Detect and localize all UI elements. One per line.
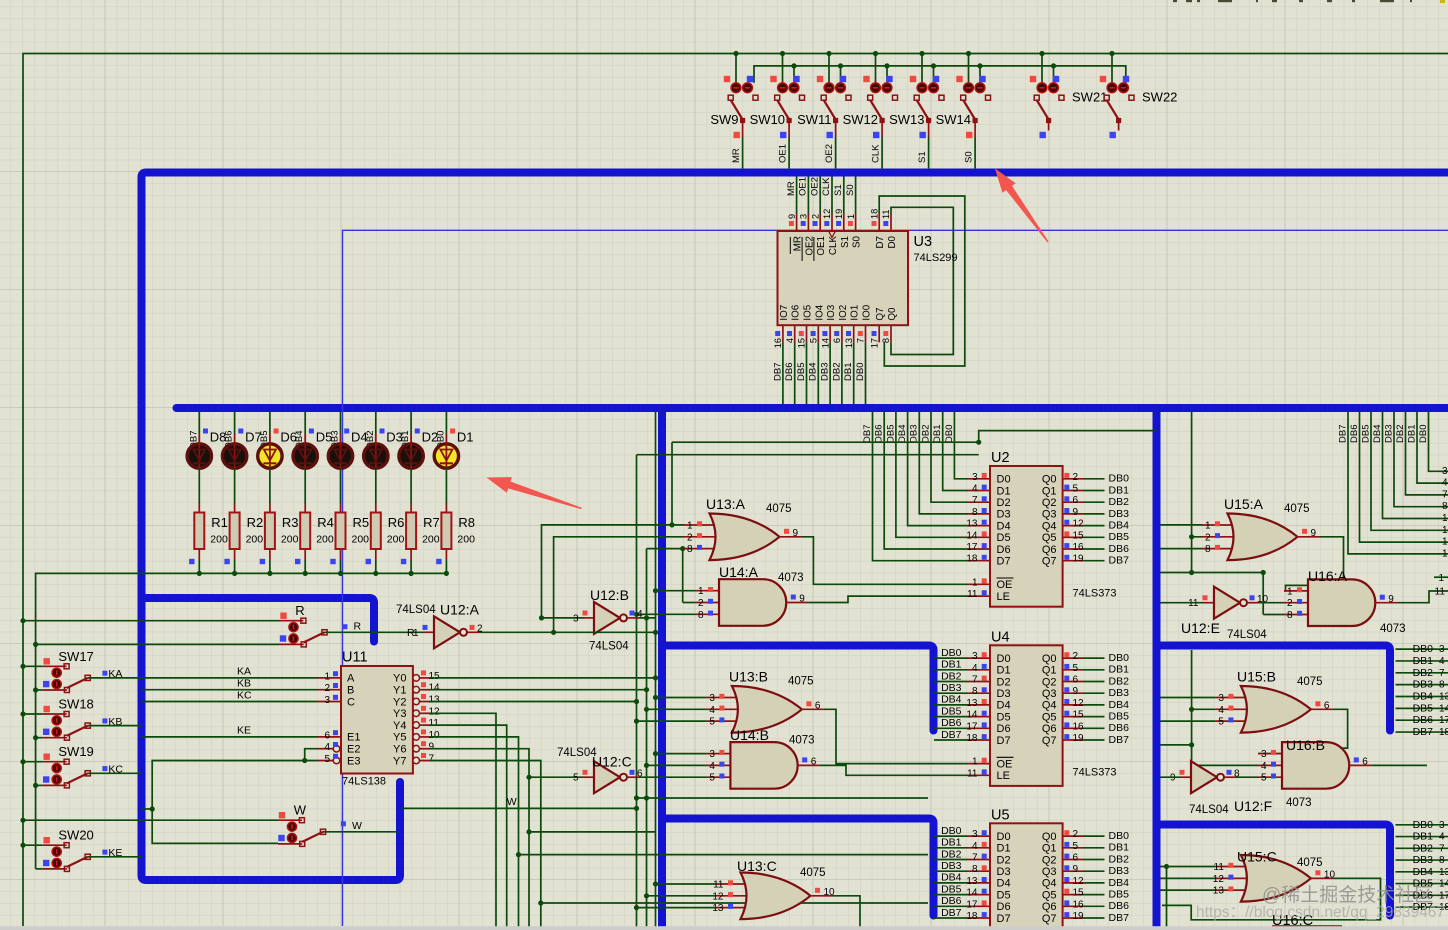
bus vertical mid <box>658 408 666 930</box>
wire rail to SW18 bottom <box>36 737 43 739</box>
U11 pin 6 indicator <box>333 730 338 735</box>
junction R4 common <box>303 571 308 576</box>
svg-text:Q5: Q5 <box>1042 532 1057 544</box>
wire net DB2 bus to U2 <box>931 412 968 502</box>
svg-text:16: 16 <box>1073 721 1085 732</box>
svg-text:SW21: SW21 <box>1072 90 1107 105</box>
U11 pin 14 stub <box>420 689 431 691</box>
U15:A input 1 stub <box>1202 524 1237 526</box>
D2 indicator <box>415 429 420 434</box>
wire R1 to common <box>198 560 200 573</box>
U5 pin 19 indicator <box>1064 912 1069 917</box>
U4 pin 15 indicator <box>1064 711 1069 716</box>
svg-text:U13:C: U13:C <box>737 858 777 874</box>
wire Y5 <box>430 737 519 930</box>
U11 Y3 bubble <box>413 710 420 717</box>
wire Y3 <box>430 713 496 930</box>
wire to U13:C pin12 <box>647 895 716 897</box>
svg-text:8: 8 <box>698 610 704 621</box>
U3 top pin 9 stub <box>796 214 798 232</box>
wire DB2 right mid <box>1396 672 1448 674</box>
wire U12:E out to U16:A pin2 <box>1259 602 1284 604</box>
svg-text:6: 6 <box>1073 853 1079 864</box>
svg-text:https：//blog.csdn.net/qq_29839: https：//blog.csdn.net/qq_29839467 <box>1196 904 1445 921</box>
LED D6 <box>258 434 282 469</box>
svg-text:R: R <box>354 621 362 633</box>
U4 pin 12 indicator <box>1064 699 1069 704</box>
U13:B pin 3 indicator <box>719 694 724 699</box>
svg-text:13: 13 <box>966 698 978 709</box>
svg-text:4075: 4075 <box>766 503 792 515</box>
wire U16:A out <box>1397 591 1448 603</box>
svg-text:B: B <box>347 685 354 697</box>
svg-text:DB7: DB7 <box>941 729 962 741</box>
R3 top lead <box>269 504 271 513</box>
bus mid section C top <box>662 819 934 916</box>
svg-text:4: 4 <box>972 841 978 852</box>
svg-text:DB6: DB6 <box>1109 543 1130 555</box>
junction U13:B pin5 <box>634 719 639 724</box>
svg-text:S0: S0 <box>964 151 975 163</box>
svg-text:8: 8 <box>1439 680 1445 691</box>
U4 pin 1 indicator <box>982 758 987 763</box>
svg-text:18: 18 <box>966 911 978 922</box>
svg-text:U16:B: U16:B <box>1286 737 1325 753</box>
U5 D5 stub <box>968 894 990 896</box>
U4 Q3 wire <box>1084 692 1105 694</box>
wire vertical 1166 <box>1166 867 1168 929</box>
wire to U15:A pin1 <box>1161 524 1203 526</box>
svg-text:DB1: DB1 <box>932 425 943 443</box>
U15:B input 5 stub <box>1215 720 1250 722</box>
svg-text:OE: OE <box>997 579 1013 591</box>
wire U12:C out to U14:B pin5 <box>639 776 706 778</box>
chip U4 74LS373 body <box>990 645 1063 786</box>
U14:A input 2 stub <box>695 602 719 604</box>
wire net DB7 bus to U2 <box>873 412 969 561</box>
wire to U15:A pin8 <box>1161 548 1203 550</box>
svg-text:U12:E: U12:E <box>1181 620 1220 636</box>
svg-text:D3: D3 <box>997 688 1011 700</box>
U5 Q5 wire <box>1084 894 1105 896</box>
switch SW21 <box>1030 51 1064 138</box>
U15:A pin 1 indicator <box>1215 521 1220 526</box>
svg-text:D7: D7 <box>997 913 1011 925</box>
svg-text:6: 6 <box>832 338 842 343</box>
U16:B input 5 stub <box>1258 776 1282 778</box>
svg-text:DB0: DB0 <box>941 825 962 837</box>
svg-text:D4: D4 <box>997 878 1011 890</box>
wire net DB0 U3 to bus <box>865 342 867 404</box>
svg-text:200: 200 <box>281 534 299 546</box>
svg-text:9: 9 <box>787 214 797 219</box>
wire DB7 right mid <box>1396 731 1448 733</box>
U4 Q5 wire <box>1084 716 1105 718</box>
U16:A output stub <box>1375 602 1397 604</box>
wire net DB2 bus to edge <box>1406 412 1448 495</box>
wire DB5 right low <box>1396 883 1448 885</box>
wire to U15:C pin13 <box>1161 889 1216 891</box>
U3 pin 5 indicator <box>811 331 816 336</box>
wire rail to SW20 bottom <box>36 868 43 870</box>
U2 pin 17 indicator <box>982 543 987 548</box>
svg-text:3: 3 <box>972 472 978 483</box>
R7 top lead <box>410 504 412 513</box>
U5 pin 7 indicator <box>982 854 987 859</box>
U15:C output stub <box>1311 877 1333 879</box>
svg-text:Q6: Q6 <box>1042 723 1057 735</box>
svg-text:D6: D6 <box>997 901 1011 913</box>
U12:E pin 10 indicator <box>1250 595 1255 600</box>
svg-text:7: 7 <box>972 675 978 686</box>
svg-text:18: 18 <box>869 209 879 219</box>
svg-text:Q1: Q1 <box>1042 843 1057 855</box>
wire U14:A out to U2 LE <box>808 596 968 602</box>
resistor R2 body <box>230 513 240 550</box>
svg-text:2: 2 <box>1205 532 1211 543</box>
svg-text:9: 9 <box>793 528 799 539</box>
wire vertical 655 <box>655 412 657 930</box>
junction R6 common <box>373 571 378 576</box>
svg-text:12: 12 <box>1073 519 1085 530</box>
wire row 572 <box>1161 572 1264 574</box>
U14:B pin 3 indicator <box>719 750 724 755</box>
U3 top pin 3 stub <box>807 214 809 232</box>
svg-text:18: 18 <box>966 733 978 744</box>
svg-text:4073: 4073 <box>1380 623 1406 635</box>
svg-text:D3: D3 <box>997 866 1011 878</box>
junction rail SW20 top <box>20 843 25 848</box>
svg-text:4: 4 <box>1439 832 1445 843</box>
U2 Q2 wire <box>1084 501 1105 503</box>
svg-text:KE: KE <box>237 725 251 737</box>
AND gate U14:B <box>730 742 797 789</box>
U2 Q1 wire <box>1084 490 1105 492</box>
svg-text:DB4: DB4 <box>1413 866 1434 878</box>
U16:B pin 3 indicator <box>1271 750 1276 755</box>
svg-text:4075: 4075 <box>1297 676 1323 688</box>
U2 pin 19 indicator <box>1064 555 1069 560</box>
U11 Y7 bubble <box>413 757 420 764</box>
U11 pin 3 stub <box>318 701 341 703</box>
U3 pin 11 indicator <box>883 221 888 226</box>
svg-text:OE: OE <box>997 758 1013 770</box>
U4 pin 11 indicator <box>982 769 987 774</box>
U5 Q1 stub <box>1063 847 1084 849</box>
wire to U12:B input <box>542 617 585 619</box>
junction U14:B pin4 <box>644 763 649 768</box>
svg-text:200: 200 <box>387 534 405 546</box>
U12:F pin 8 indicator <box>1227 770 1232 775</box>
bus mid section B top <box>662 646 934 731</box>
svg-text:Q2: Q2 <box>1042 676 1057 688</box>
svg-text:6: 6 <box>324 730 330 741</box>
svg-text:DB5: DB5 <box>1360 425 1371 443</box>
svg-text:9: 9 <box>1388 594 1394 605</box>
svg-text:D4: D4 <box>997 520 1011 532</box>
wire net S1 bus to U3 <box>843 177 845 214</box>
U5 Q6 stub <box>1063 905 1084 907</box>
svg-text:IO4: IO4 <box>814 304 825 320</box>
svg-text:5: 5 <box>1261 773 1267 784</box>
U15:B pin 5 indicator <box>1228 717 1233 722</box>
wire net DB1 bus to U2 <box>943 412 968 491</box>
svg-text:10: 10 <box>429 730 441 741</box>
wire D6 to R3 <box>269 468 271 504</box>
U14:B input 5 stub <box>706 776 730 778</box>
svg-text:DB6: DB6 <box>784 363 795 381</box>
wire to U15:B pin5 <box>1161 720 1216 722</box>
svg-text:3: 3 <box>324 695 330 706</box>
svg-text:74LS299: 74LS299 <box>914 252 958 264</box>
U13:A output indicator <box>784 529 789 534</box>
U11 pin 1 indicator <box>333 671 338 676</box>
wire W row 808 <box>402 807 637 809</box>
net KE indicator <box>102 850 107 855</box>
U14:B input 3 stub <box>706 753 730 755</box>
svg-text:IO6: IO6 <box>791 304 802 320</box>
svg-text:U12:A: U12:A <box>440 602 480 618</box>
svg-text:16: 16 <box>773 338 783 348</box>
U3 bottom pin 4 stub <box>794 325 796 342</box>
svg-text:7: 7 <box>972 495 978 506</box>
NOT gate U12:B <box>594 602 620 634</box>
svg-text:KC: KC <box>237 689 252 701</box>
U14:B pin 5 indicator <box>719 774 724 779</box>
svg-text:1: 1 <box>1205 521 1211 532</box>
AND gate U16:B <box>1282 742 1349 789</box>
junction rail R top <box>20 618 25 623</box>
U2 Q3 wire <box>1084 513 1105 515</box>
wire cross row 442 <box>672 431 1157 443</box>
U4 pin 13 indicator <box>982 699 987 704</box>
U15:A pin 8 indicator <box>1215 545 1220 550</box>
U5 Q0 stub <box>1063 835 1084 837</box>
svg-text:A: A <box>347 673 355 685</box>
U2 pin 15 indicator <box>1064 531 1069 536</box>
U15:C input 11 stub <box>1215 866 1250 868</box>
svg-text:DB7: DB7 <box>1337 425 1348 443</box>
svg-text:DB1: DB1 <box>843 363 854 381</box>
U11 pin 15 indicator <box>421 670 426 675</box>
junction row 809 <box>150 806 155 811</box>
U15:B output indicator <box>1315 701 1320 706</box>
U12:B output stub <box>627 617 639 619</box>
wire to U15:B pin3 <box>1161 697 1216 699</box>
svg-text:R2: R2 <box>247 515 264 530</box>
svg-text:OE1: OE1 <box>816 236 827 256</box>
wire net DB5 U3 to bus <box>806 342 808 404</box>
R2 bottom lead <box>234 549 236 560</box>
U12:C pin 5 indicator <box>583 770 588 775</box>
wire net DB5 bus to edge <box>1371 412 1448 530</box>
U3 bottom pin 14 stub <box>829 325 831 342</box>
U11 pin 2 stub <box>318 689 341 691</box>
svg-text:2: 2 <box>1073 472 1079 483</box>
svg-text:11: 11 <box>713 880 724 891</box>
U16:A pin 2 indicator <box>1297 599 1302 604</box>
resistor R8 body <box>441 513 451 550</box>
U11 Y0 bubble <box>413 675 420 682</box>
U14:B pin 4 indicator <box>719 762 724 767</box>
junction Y0 <box>653 675 658 680</box>
U3 overline MR <box>789 237 791 254</box>
LED D2 <box>399 434 423 469</box>
U14:A pin 2 indicator <box>708 599 713 604</box>
svg-text:13: 13 <box>966 876 978 887</box>
svg-text:4: 4 <box>972 663 978 674</box>
wire bus to D3 <box>375 412 377 434</box>
svg-text:DB3: DB3 <box>941 860 962 872</box>
svg-text:KA: KA <box>237 666 251 678</box>
svg-text:8: 8 <box>1442 501 1448 512</box>
wire second top rail <box>754 66 1126 83</box>
wire U15:C out loop <box>1162 878 1381 920</box>
wire R5 to common <box>340 560 342 573</box>
D7 indicator <box>238 429 243 434</box>
U11 pin 1 stub <box>318 677 341 679</box>
svg-text:5: 5 <box>573 773 579 784</box>
U4 D2 stub <box>968 681 990 683</box>
svg-text:14: 14 <box>966 710 978 721</box>
U4 pin 6 indicator <box>1064 676 1069 681</box>
wire net OE2 bus to U3 <box>819 177 821 214</box>
wire DB5 to U5 <box>934 894 968 896</box>
svg-text:C: C <box>347 696 355 708</box>
junction R7 common <box>409 571 414 576</box>
U2 pin 3 indicator <box>982 473 987 478</box>
svg-text:6: 6 <box>815 701 821 712</box>
wire D8 to R1 <box>198 468 200 504</box>
U12:F bubble <box>1217 774 1224 781</box>
svg-text:DB1: DB1 <box>1413 831 1434 843</box>
svg-text:U15:A: U15:A <box>1224 496 1264 512</box>
svg-text:14: 14 <box>429 683 441 694</box>
junction R8 common <box>444 571 449 576</box>
wire net CLK bus to U3 <box>831 177 833 214</box>
wire net DB6 U3 to bus <box>794 342 796 404</box>
U4 D5 stub <box>968 716 990 718</box>
U2 LE stub <box>968 595 990 597</box>
svg-text:DB2: DB2 <box>831 363 842 381</box>
U4 pin 19 indicator <box>1064 734 1069 739</box>
U5 pin 8 indicator <box>982 865 987 870</box>
svg-text:200: 200 <box>316 534 334 546</box>
svg-text:13: 13 <box>712 903 724 914</box>
U11 pin 15 stub <box>420 677 431 679</box>
wire DB1 to U5 <box>934 847 968 849</box>
U2 pin 7 indicator <box>982 496 987 501</box>
wire vertical 636 <box>636 455 638 930</box>
svg-text:IO5: IO5 <box>803 304 814 320</box>
svg-text:14: 14 <box>1439 879 1448 890</box>
OR gate U13:C <box>741 873 811 920</box>
svg-text:Q3: Q3 <box>1042 688 1057 700</box>
svg-text:14: 14 <box>966 888 978 899</box>
U11 pin 7 indicator <box>421 753 426 758</box>
U5 pin 17 indicator <box>982 900 987 905</box>
svg-text:R4: R4 <box>317 515 334 530</box>
U15:B input 4 stub <box>1215 708 1250 710</box>
wire bus to D2 <box>410 412 412 434</box>
wire bus to D1 <box>445 412 447 434</box>
wire net DB1 bus to edge <box>1417 412 1448 483</box>
U13:B input 4 stub <box>706 708 741 710</box>
svg-text:Y2: Y2 <box>393 696 406 708</box>
svg-text:DB1: DB1 <box>1413 655 1434 667</box>
wire net DB2 U3 to bus <box>841 342 843 404</box>
U11 pin 4 stub <box>318 748 333 750</box>
U11 pin 13 stub <box>420 701 431 703</box>
svg-text:6: 6 <box>811 757 817 768</box>
wire to U13:A pin2 <box>554 537 684 633</box>
chip U5 74LS373 body <box>990 823 1063 930</box>
U3 pin 3 indicator <box>801 221 806 226</box>
U3 top pin 2 stub <box>819 214 821 232</box>
U2 Q1 stub <box>1063 490 1084 492</box>
R6 bottom lead <box>375 549 377 560</box>
U2 Q6 stub <box>1063 548 1084 550</box>
svg-text:D1: D1 <box>997 485 1011 497</box>
junction row572 <box>1189 570 1194 575</box>
wire U13:A out to U2 OE <box>802 537 969 585</box>
junction cross rows <box>976 440 981 445</box>
wire W to bus <box>323 831 400 833</box>
wire DB0 right mid <box>1396 648 1448 650</box>
U11 E3 bubble <box>333 757 340 764</box>
svg-text:S1: S1 <box>917 151 928 163</box>
U13:B pin 5 indicator <box>719 717 724 722</box>
chip U3 74LS299 body <box>778 231 909 325</box>
U11 pin 2 indicator <box>333 683 338 688</box>
switch SW19 <box>43 754 91 788</box>
junction U12:B input <box>539 615 544 620</box>
junction row798 a <box>634 795 639 800</box>
svg-text:OE2: OE2 <box>824 144 835 163</box>
svg-text:SW10: SW10 <box>750 112 785 127</box>
svg-text:4: 4 <box>1218 705 1224 716</box>
svg-text:U13:A: U13:A <box>706 496 746 512</box>
svg-text:9: 9 <box>429 742 435 753</box>
svg-text:Y1: Y1 <box>393 685 406 697</box>
U4 Q7 wire <box>1084 739 1105 741</box>
U4 OE stub <box>968 763 990 765</box>
U13:B output indicator <box>806 701 811 706</box>
U15:B input 3 stub <box>1215 697 1250 699</box>
svg-text:DB6: DB6 <box>1109 900 1130 912</box>
wire net DB3 bus to edge <box>1394 412 1448 507</box>
wire DB1 right mid <box>1396 660 1448 662</box>
NOT gate U12:E <box>1214 587 1240 619</box>
resistor R3 body <box>265 513 275 550</box>
R7 bottom lead <box>410 549 412 560</box>
svg-text:DB4: DB4 <box>897 425 908 443</box>
svg-text:11: 11 <box>1214 862 1225 873</box>
svg-text:200: 200 <box>246 534 264 546</box>
svg-text:4073: 4073 <box>778 572 804 584</box>
wire net DB3 U3 to bus <box>829 342 831 404</box>
junction rail SW18 top <box>20 711 25 716</box>
svg-text:19: 19 <box>1073 911 1085 922</box>
svg-text:OE2: OE2 <box>809 177 820 196</box>
svg-text:U13:B: U13:B <box>729 669 768 685</box>
switch SW9 <box>724 51 758 168</box>
U5 pin 13 indicator <box>982 877 987 882</box>
wire D1 to R8 <box>445 468 447 504</box>
wire to U13:B pin5 <box>637 720 707 722</box>
svg-text:3: 3 <box>1439 644 1445 655</box>
wire to U14:B pin3 <box>656 753 707 755</box>
